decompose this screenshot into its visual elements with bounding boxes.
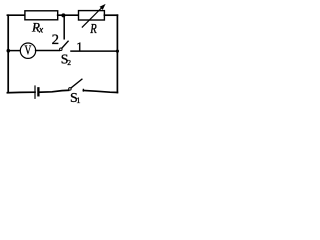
svg-text:Rx: Rx (31, 19, 43, 34)
svg-text:R: R (89, 20, 97, 36)
rheostat R box (79, 11, 105, 20)
wire battery to S1 pivot (39, 90, 69, 92)
svg-text:V: V (24, 43, 31, 58)
rheostat R arrow diagonal (82, 7, 102, 27)
node junction top rail to S2 contact 2 (61, 13, 65, 17)
wire top rail left segment (7, 14, 25, 16)
wire S2 contact 2 vertical (63, 16, 65, 39)
node junction contact1 wire right rail (116, 50, 119, 53)
wire right rail (116, 15, 118, 92)
wire bottom rail left segment (7, 91, 35, 94)
wire top rail right segment (104, 14, 117, 16)
battery BT long plate (34, 86, 36, 98)
wire S2 contact 1 to right rail (71, 50, 117, 52)
svg-text:2: 2 (52, 32, 59, 48)
rheostat R arrowhead (100, 4, 106, 10)
wire voltmeter to S2 pivot (36, 50, 60, 52)
switch S1 blade (71, 79, 82, 88)
wire voltmeter left lead (8, 50, 20, 52)
switch S2 pivot (60, 48, 63, 51)
node junction left rail to voltmeter (7, 49, 11, 53)
svg-text:S2: S2 (61, 52, 71, 67)
wire top rail middle segment (58, 14, 79, 16)
wire bottom rail right segment (83, 91, 117, 93)
switch S2 blade (62, 41, 68, 48)
svg-text:S1: S1 (70, 91, 81, 106)
switch S1 pivot (69, 88, 72, 91)
wire left rail (7, 15, 9, 92)
battery BT short plate (37, 88, 39, 95)
voltmeter V1 circle (20, 43, 35, 58)
resistor RX box (25, 11, 58, 20)
switch S1 right contact tick (82, 89, 84, 91)
